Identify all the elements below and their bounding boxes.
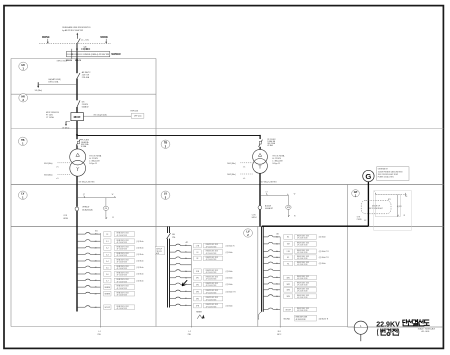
svg-text:4F 2009/7038: 4F 2009/7038 [297, 238, 308, 240]
svg-text:SUBLEASE LINE FROM KEPC0: SUBLEASE LINE FROM KEPC0 [62, 26, 90, 29]
breaker feeder box [284, 282, 293, 287]
zone label LV/3 [161, 191, 170, 199]
wire LA branch [39, 83, 77, 85]
svg-text:4F 2009/7038: 4F 2009/7038 [206, 253, 217, 255]
svg-text:(O) Bkxh: (O) Bkxh [137, 274, 144, 276]
svg-text:4F 2009/7038: 4F 2009/7038 [297, 258, 308, 260]
svg-text:REMODEV 38/8: REMODEV 38/8 [297, 295, 309, 297]
wire bus LV1 lower [76, 211, 78, 227]
svg-text:REMODEV 38/8: REMODEV 38/8 [206, 276, 218, 278]
wire meter drop 2 [287, 195, 289, 205]
breaker ACB2 [258, 206, 262, 210]
symbol wye TR1 [76, 167, 79, 171]
wire feeder [170, 304, 192, 306]
wire arrow to line right [105, 39, 107, 44]
node junction dots [76, 45, 90, 50]
box MG dashed [361, 200, 391, 213]
svg-text:PNL: PNL [172, 237, 175, 239]
breaker feeder box [104, 232, 111, 237]
svg-text:GV 3.3sq/3 (CB): GV 3.3sq/3 (CB) [93, 114, 107, 116]
zone line H HV2/TB [11, 127, 443, 129]
wire bus LV3 [259, 185, 261, 206]
label feeder dest box [203, 250, 222, 255]
svg-text:380V 220/380V 60HZ 3P4W: 380V 220/380V 60HZ 3P4W [378, 174, 399, 176]
breaker feeder box [104, 278, 111, 283]
wire feeder [263, 250, 280, 252]
svg-text:3-2: 3-2 [106, 248, 109, 250]
svg-text:4F 2009/7038: 4F 2009/7038 [297, 285, 308, 287]
zone line vertical LV2 [257, 227, 259, 327]
breaker feeder box [284, 235, 293, 240]
label ASS [82, 71, 91, 79]
label MG PNL [172, 234, 175, 239]
node gen ctrl end [406, 193, 408, 196]
symbol delta TR1 [76, 153, 80, 156]
wire panel L2 drop [190, 246, 192, 328]
svg-text:WHM-W: WHM-W [82, 207, 89, 209]
wire NG tap 4 dashed [240, 173, 253, 175]
label feeder dest box [114, 272, 134, 277]
svg-text:HRD4: HRD4 [63, 218, 68, 220]
breaker feeder box [284, 242, 293, 247]
label feeder dest box [114, 305, 134, 310]
wire feeder [78, 292, 101, 294]
svg-text:REMODEV 38/8: REMODEV 38/8 [206, 304, 218, 306]
wire metering branch 1 [77, 197, 115, 199]
svg-text:NG1 (Bkx): NG1 (Bkx) [44, 163, 53, 165]
wire feeder [170, 276, 192, 278]
label panel L2 [188, 331, 192, 336]
label feeder dest box [295, 235, 317, 240]
label feeder dest box [203, 289, 222, 294]
svg-text:CHP (um): CHP (um) [134, 116, 142, 118]
label GTR [357, 217, 362, 222]
wire feeder [263, 235, 280, 237]
meter APR [286, 205, 291, 209]
zone line H title [348, 326, 444, 328]
zone label TB/1 [18, 137, 27, 145]
svg-text:3F1: 3F1 [196, 278, 199, 280]
breaker feeder box [284, 307, 293, 312]
label feeder dest box [295, 242, 317, 247]
svg-text:4F 2009/7038: 4F 2009/7038 [117, 255, 128, 257]
wire bus HV1 lower [76, 79, 78, 100]
wire generator stem [367, 182, 369, 227]
wire TR1 out [76, 176, 78, 184]
wire NG tap 1 dashed [58, 162, 70, 164]
svg-text:3F3: 3F3 [196, 291, 199, 293]
transformer TR1 primary [70, 149, 86, 165]
bus LV panel L2 [168, 227, 170, 308]
wire feeder [170, 263, 192, 265]
svg-text:TR 1KW: TR 1KW [156, 251, 162, 253]
svg-text:4F 2009/7038: 4F 2009/7038 [297, 245, 308, 247]
svg-text:LV: LV [164, 193, 167, 196]
svg-text:BT1: BT1 [388, 199, 391, 201]
zone label HV/2 [19, 94, 28, 102]
svg-text:4F 2009/7038: 4F 2009/7038 [297, 310, 308, 312]
wire feeder [263, 262, 280, 264]
svg-text:(O) BkxhT R: (O) BkxhT R [319, 251, 330, 253]
svg-text:REMODEV 38/8: REMODEV 38/8 [206, 283, 218, 285]
svg-text:REMODEV 38/8: REMODEV 38/8 [117, 306, 129, 308]
switch DS [77, 100, 80, 107]
wire bus below box [76, 51, 78, 58]
svg-text:(O) BkxhT R: (O) BkxhT R [319, 318, 329, 320]
node branch2 end mark [288, 194, 296, 196]
wire bus HV2 [76, 107, 78, 113]
svg-text:(O) Bkxh: (O) Bkxh [226, 278, 233, 280]
svg-text:LA(GAP LESS): LA(GAP LESS) [48, 78, 61, 81]
breaker feeder box [104, 252, 111, 257]
breaker feeder box [194, 243, 202, 248]
svg-text:3W EQP: 3W EQP [156, 249, 162, 251]
svg-text:(O) Bkxh R: (O) Bkxh R [226, 245, 236, 247]
svg-text:4F 2009/7038: 4F 2009/7038 [297, 252, 308, 254]
zone line H HV1/HV2 [11, 93, 156, 95]
svg-text:4F 2009/7038: 4F 2009/7038 [297, 291, 308, 293]
wire feeder [78, 272, 101, 274]
svg-text:SPARE: SPARE [104, 286, 110, 289]
wire feeder [170, 290, 192, 292]
label feeder dest box [114, 285, 134, 290]
svg-text:S-Dyn 11: S-Dyn 11 [89, 163, 97, 165]
zone line vertical GP [347, 185, 349, 328]
svg-text:4F 2009/7038: 4F 2009/7038 [117, 268, 128, 270]
zone line H top HV1 [11, 58, 156, 60]
svg-text:3-6: 3-6 [106, 274, 109, 276]
breaker feeder box [284, 255, 293, 260]
svg-text:MODE OF: MODE OF [372, 205, 380, 207]
svg-text:(O) Bkxh: (O) Bkxh [137, 267, 144, 269]
zone line H bottom [11, 326, 348, 328]
wire bus LV1 [76, 185, 78, 207]
svg-text:(O) Bkxh: (O) Bkxh [137, 241, 144, 243]
svg-text:(O) Bkxh: (O) Bkxh [226, 252, 233, 254]
svg-text:AT ROOM RIGHT: AT ROOM RIGHT [369, 207, 382, 210]
box gen control outer faint [374, 191, 412, 230]
svg-text:4F 2009/7038: 4F 2009/7038 [206, 306, 217, 308]
svg-text:(O) BkxhT R: (O) BkxhT R [226, 291, 237, 293]
wire feeder [263, 276, 280, 278]
breaker feeder box [194, 289, 202, 294]
bus LV panel L1 [76, 227, 78, 312]
svg-text:REMODEV 38/8: REMODEV 38/8 [297, 250, 309, 252]
svg-text:MCC: MCC [277, 334, 282, 336]
wire bus LV3 lower [259, 210, 261, 227]
svg-text:LV: LV [21, 193, 24, 196]
wire meter drop 1 [105, 198, 107, 207]
label feeder dest box [295, 275, 317, 280]
symbol riser [197, 315, 204, 319]
svg-text:SCALE : NONSCALE: SCALE : NONSCALE [418, 327, 436, 330]
svg-text:REMODEV 38/8: REMODEV 38/8 [117, 233, 129, 235]
svg-text:REMODEV 38/8: REMODEV 38/8 [297, 243, 309, 245]
svg-text:REMODEV 38/8: REMODEV 38/8 [296, 317, 308, 319]
label panel L1 [98, 331, 102, 336]
svg-text:(O) Bkxh: (O) Bkxh [137, 254, 144, 256]
label TR1 [89, 155, 102, 166]
wire bus below MOF [76, 121, 78, 140]
label generator box [377, 167, 409, 181]
label PF2 [267, 139, 276, 147]
node meter2 end mark [288, 215, 296, 218]
zone line vertical mid [155, 59, 157, 327]
node meter end mark [106, 217, 114, 219]
wire generator tie [262, 225, 369, 227]
svg-text:REMODEV 38/8: REMODEV 38/8 [117, 273, 129, 275]
label feeder dest box [203, 256, 222, 261]
svg-text:GP: GP [354, 191, 358, 194]
zone line H LV/panels [11, 226, 443, 228]
breaker ACB1 [75, 207, 79, 211]
svg-text:NG1 (Bkx): NG1 (Bkx) [227, 163, 236, 165]
node CT2 tick [266, 192, 268, 196]
svg-text:4F 2009/7038: 4F 2009/7038 [206, 285, 217, 287]
wire feeder [78, 246, 101, 248]
svg-text:MWNE: MWNE [100, 36, 108, 39]
svg-text:(O) Bkxh: (O) Bkxh [319, 263, 326, 265]
svg-text:W EXP: W EXP [105, 307, 111, 309]
svg-text:E1: E1 [287, 257, 289, 259]
label TR2 [272, 155, 285, 166]
label MOF ratings [46, 112, 59, 119]
wire feeder [170, 244, 192, 246]
wire feeder [170, 251, 192, 253]
svg-text:GV 38sq X-GB 78G: GV 38sq X-GB 78G [79, 181, 95, 183]
svg-text:4F 2009/7038: 4F 2009/7038 [206, 259, 217, 261]
symbol title circle [354, 321, 367, 341]
label feeder dest box [114, 259, 134, 264]
svg-text:REMODEV 38/8: REMODEV 38/8 [206, 244, 218, 246]
svg-text:22.9KV: 22.9KV [376, 320, 400, 328]
svg-text:REMODEV 38/8: REMODEV 38/8 [297, 256, 309, 258]
svg-text:KEPCO SIDE: KEPCO SIDE [57, 61, 68, 63]
svg-text:REMODEV 38/8: REMODEV 38/8 [297, 262, 309, 264]
cursor arrow mark [182, 280, 187, 286]
wire arrow to line left [47, 39, 49, 44]
svg-text:3W3: 3W3 [286, 290, 290, 292]
meter WHM [103, 206, 108, 210]
switch bus L2 top [167, 233, 171, 239]
wire to TR2 [259, 147, 261, 150]
wire feeder [78, 306, 101, 308]
wire gen ctrl dashed [376, 194, 407, 196]
wire bus M1 hook [258, 312, 261, 320]
svg-text:CT: CT [266, 192, 268, 194]
label COS2 [252, 215, 257, 220]
label feeder dest box [203, 276, 222, 281]
label ACB2 [265, 204, 274, 210]
wire feeder [170, 270, 192, 272]
wire meter drop 1b [105, 210, 107, 219]
switch SW1 incoming [77, 39, 80, 44]
svg-text:4F 2009/7038: 4F 2009/7038 [206, 279, 217, 281]
wire to TR1 [76, 145, 78, 149]
wire feeder [170, 257, 192, 259]
zone label HV/1 [19, 62, 28, 70]
svg-text:WN-CH: WN-CH [75, 60, 82, 62]
symbol delta TR2 [258, 153, 261, 156]
wire meter drop 2b [287, 209, 289, 216]
svg-text:4F 2009/7038: 4F 2009/7038 [296, 319, 306, 321]
svg-text:W 3EA: W 3EA [81, 145, 87, 148]
wire NG tap 3 dashed [240, 162, 252, 164]
svg-text:4F 2009/7038: 4F 2009/7038 [117, 294, 128, 296]
zone label LV/1 [18, 191, 27, 199]
svg-text:REMODEV 38/8: REMODEV 38/8 [297, 236, 309, 238]
wire feeder [78, 233, 101, 235]
svg-text:MOF: MOF [74, 115, 81, 119]
breaker feeder box [284, 275, 293, 280]
svg-text:MWNEM: MWNEM [111, 54, 120, 56]
svg-text:3-3: 3-3 [106, 254, 109, 256]
transformer TR1 secondary [70, 160, 86, 176]
symbol wye TR2 [259, 165, 262, 169]
breaker feeder box [104, 305, 111, 310]
breaker feeder box [104, 291, 111, 296]
svg-text:4F 2009/7038: 4F 2009/7038 [117, 288, 128, 290]
zone label TB/2 [161, 140, 170, 148]
svg-text:4F 2009/7038: 4F 2009/7038 [117, 235, 128, 237]
wire TR2 feed horizontal [77, 135, 261, 137]
svg-text:REMODEV 38/8: REMODEV 38/8 [206, 257, 218, 259]
label feeder dest box [114, 252, 134, 257]
bus MCC M1 [262, 227, 264, 312]
svg-text:(O) Bkxh: (O) Bkxh [319, 237, 326, 239]
breaker feeder box [104, 259, 111, 264]
breaker feeder box [284, 288, 293, 293]
wire bus drop to meter box [76, 43, 78, 51]
svg-text:NG2 (Bkx): NG2 (Bkx) [44, 175, 53, 177]
svg-text:G: G [365, 172, 371, 181]
svg-text:4F 2009/7038: 4F 2009/7038 [206, 272, 217, 274]
svg-text:3-7: 3-7 [106, 280, 109, 282]
breaker feeder box [104, 265, 111, 270]
svg-text:(O) Bkxh: (O) Bkxh [226, 305, 233, 307]
breaker feeder box [194, 269, 202, 274]
svg-text:REMODEV 38/8: REMODEV 38/8 [117, 279, 129, 281]
transformer TR2 primary [253, 149, 268, 164]
arrester LA2 [65, 121, 70, 126]
breaker feeder box [194, 282, 202, 287]
svg-text:4F 2009/7038: 4F 2009/7038 [117, 308, 128, 310]
label feeder dest box [114, 291, 134, 296]
svg-text:18KV 2.5KA: 18KV 2.5KA [48, 81, 59, 84]
wire dashed property line [39, 42, 111, 44]
breaker feeder box [104, 239, 111, 244]
svg-text:S-Dyn 11: S-Dyn 11 [272, 163, 280, 165]
svg-text:4F 2009/7038: 4F 2009/7038 [297, 264, 308, 266]
svg-text:REMODEV 38/8: REMODEV 38/8 [297, 288, 309, 290]
wire feeder [78, 253, 101, 255]
node tap junction [76, 134, 78, 136]
label ACB1 [82, 207, 92, 212]
zone label LV/2 [244, 229, 253, 237]
svg-text:3-4: 3-4 [106, 261, 109, 263]
wire feeder [263, 308, 280, 310]
svg-text:3W2: 3W2 [286, 284, 290, 286]
label feeder dest box [295, 282, 317, 287]
svg-text:2F: 2F [106, 234, 108, 236]
switch ASS [76, 73, 80, 79]
svg-text:1Φ (Bkx): 1Φ (Bkx) [62, 126, 70, 129]
svg-text:REMODEV 38/8: REMODEV 38/8 [206, 297, 218, 299]
label feeder dest box [295, 249, 317, 254]
svg-text:PNL: PNL [188, 334, 192, 336]
svg-text:REMODEV 38/8: REMODEV 38/8 [117, 286, 129, 288]
svg-text:4F 2009/7038: 4F 2009/7038 [117, 249, 128, 251]
svg-text:REMODEV 38/8: REMODEV 38/8 [297, 276, 309, 278]
label feeder dest box [203, 269, 222, 274]
svg-text:4F 2009/7038: 4F 2009/7038 [117, 275, 128, 277]
svg-text:(O) Bkxh: (O) Bkxh [137, 261, 144, 263]
wire feeder [78, 240, 101, 242]
title hangul dan-seon-gyeol-seon-do [403, 320, 429, 326]
svg-text:TB: TB [164, 142, 168, 145]
svg-text:REMODEV 38/8: REMODEV 38/8 [117, 240, 129, 242]
breaker feeder box [194, 250, 202, 255]
node gen ctrl tick [374, 191, 376, 194]
svg-text:PWXB: PWXB [357, 219, 362, 221]
svg-text:RISER: RISER [196, 311, 202, 313]
svg-text:LV: LV [246, 231, 249, 234]
label feeder dest box [295, 307, 317, 312]
breaker feeder box [104, 272, 111, 277]
svg-text:REMODEV 38/8: REMODEV 38/8 [117, 247, 129, 249]
svg-text:W EXP: W EXP [285, 309, 291, 311]
svg-text:R1: R1 [287, 263, 289, 265]
breaker feeder box [194, 296, 202, 301]
label feeder dest box [295, 261, 317, 266]
label PF1 [81, 140, 90, 148]
zone line H TB/LV [11, 184, 443, 186]
svg-text:A3 - 0406: A3 - 0406 [422, 330, 430, 333]
breaker feeder box [194, 256, 202, 261]
svg-text:REMODEV 38/8: REMODEV 38/8 [206, 251, 218, 253]
transformer TR2 secondary [253, 159, 268, 174]
wire panel M1 drop [279, 237, 281, 328]
label DS [82, 102, 89, 109]
label feeder dest box [203, 303, 222, 308]
svg-text:NG2 (Bkx): NG2 (Bkx) [227, 174, 236, 176]
svg-text:4F 2009/7038: 4F 2009/7038 [206, 246, 217, 248]
label COS1 [63, 215, 68, 220]
box gen control inner faint [375, 195, 400, 217]
svg-text:L-1: L-1 [98, 331, 101, 333]
svg-text:HRD4: HRD4 [252, 217, 257, 219]
svg-text:CT 10/5A: CT 10/5A [46, 116, 54, 119]
label MG box [369, 205, 382, 210]
svg-text:HXFCUB: HXFCUB [131, 110, 139, 112]
box CHP unit [131, 113, 144, 118]
label feeder dest box [114, 246, 134, 251]
svg-text:4F 2009/7038: 4F 2009/7038 [297, 297, 308, 299]
note incoming source text [62, 26, 90, 32]
svg-text:3F2: 3F2 [196, 284, 199, 286]
svg-text:1Φ (Bkx): 1Φ (Bkx) [35, 89, 43, 92]
svg-text:HV: HV [21, 95, 25, 98]
svg-text:3W4: 3W4 [286, 296, 290, 298]
wire feeder [78, 279, 101, 281]
svg-text:4F 2009/7038: 4F 2009/7038 [117, 242, 128, 244]
svg-text:(O) Bkxh: (O) Bkxh [137, 248, 144, 250]
svg-text:3-5: 3-5 [106, 267, 109, 269]
label panel M1 [277, 331, 282, 336]
node branch end mark [112, 194, 116, 198]
svg-text:4F 2009/7038: 4F 2009/7038 [206, 292, 217, 294]
breaker feeder box [104, 285, 111, 290]
